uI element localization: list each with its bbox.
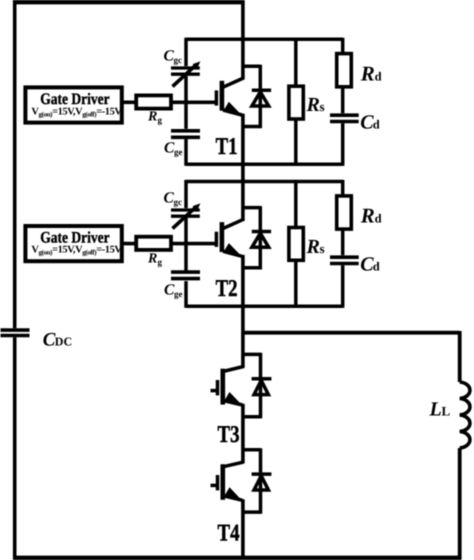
- wire left rail lower: [13, 337, 17, 559]
- svg-text:s: s: [320, 241, 325, 256]
- svg-text:L: L: [429, 399, 442, 421]
- svg-text:R: R: [360, 62, 375, 86]
- capacitor Cge T1: [171, 131, 200, 138]
- svg-text:L: L: [442, 404, 451, 419]
- label Rs T1: [306, 94, 325, 116]
- wire left rail upper: [13, 0, 17, 328]
- label LL: [429, 399, 451, 421]
- label Cge T2: [164, 282, 183, 300]
- capacitor Cd T2: [330, 257, 359, 263]
- wire right rail lower: [458, 448, 462, 559]
- diode D2: [243, 206, 271, 270]
- gate driver box 2: [25, 226, 121, 261]
- resistor Rd T2: [337, 196, 352, 229]
- svg-text:R: R: [306, 236, 320, 258]
- svg-text:ge: ge: [174, 289, 183, 299]
- IGBT T1: [216, 78, 243, 115]
- wire top bus: [13, 0, 245, 4]
- capacitor Cge T2: [171, 272, 200, 279]
- svg-text:d: d: [375, 70, 382, 84]
- wire center rail segment 4 (T3 emitter to T4 collector): [241, 404, 245, 464]
- diode D1: [243, 65, 271, 129]
- label Cgc T2: [164, 190, 183, 208]
- wire center rail segment 5 (T4 emitter to bottom): [241, 499, 245, 557]
- label Cge T1: [164, 140, 183, 158]
- svg-text:d: d: [375, 212, 382, 226]
- capacitor Cgc (variable) T1: [171, 68, 200, 74]
- svg-text:T3: T3: [218, 422, 240, 448]
- resistor Rs T2: [294, 180, 298, 308]
- wire right rail upper: [458, 331, 462, 382]
- svg-text:R: R: [147, 109, 157, 124]
- label Rd T2: [360, 204, 382, 228]
- inductor LL: [460, 382, 470, 448]
- svg-text:ge: ge: [174, 147, 183, 157]
- wire gate T2: [122, 242, 216, 246]
- capacitor Cd T1: [330, 115, 359, 121]
- label CDC: [43, 330, 72, 351]
- label Rg T2: [147, 251, 163, 267]
- svg-text:R: R: [147, 251, 157, 266]
- wire center rail segment 1 (top to T1 collector): [241, 0, 245, 80]
- diode D3: [243, 353, 272, 419]
- T1 snubber box: [186, 38, 343, 166]
- IGBT T4: [211, 462, 244, 500]
- diode D4: [243, 448, 272, 514]
- svg-text:g: g: [158, 257, 163, 267]
- svg-text:gc: gc: [174, 197, 183, 207]
- resistor Rs T1: [294, 38, 298, 166]
- svg-text:d: d: [373, 117, 380, 131]
- capacitor CDC: [1, 330, 30, 335]
- resistor Rd T1: [337, 54, 352, 87]
- label Rg T1: [147, 109, 163, 125]
- svg-text:T4: T4: [218, 521, 240, 547]
- label Cd T1: [360, 111, 380, 133]
- wire center rail segment 3 (T2 emitter to T3 collector): [241, 255, 245, 368]
- label Rd T1: [360, 62, 382, 86]
- svg-text:g: g: [158, 115, 163, 125]
- svg-text:T2: T2: [216, 276, 238, 302]
- capacitor Cgc (variable) T2: [171, 210, 200, 216]
- svg-text:s: s: [320, 99, 325, 114]
- wire bottom bus: [13, 556, 462, 560]
- label Cgc T1: [164, 48, 183, 66]
- resistor Rg T1: [136, 95, 171, 108]
- label Cd T2: [360, 253, 380, 275]
- gate driver box 1: [25, 87, 121, 122]
- svg-text:gc: gc: [174, 55, 183, 65]
- IGBT T3: [211, 367, 244, 406]
- resistor Rg T2: [136, 237, 171, 250]
- svg-text:R: R: [306, 94, 320, 116]
- wire gate T1: [122, 101, 216, 105]
- label Rs T2: [306, 236, 325, 258]
- svg-text:DC: DC: [55, 335, 72, 349]
- T2 snubber box: [186, 180, 343, 308]
- wire load branch: [243, 331, 460, 335]
- svg-text:d: d: [373, 259, 380, 273]
- wire center rail segment 2 (T1 emitter to T2 collector): [241, 114, 245, 221]
- IGBT T2: [216, 219, 243, 256]
- svg-text:T1: T1: [216, 134, 238, 160]
- svg-text:R: R: [360, 204, 375, 228]
